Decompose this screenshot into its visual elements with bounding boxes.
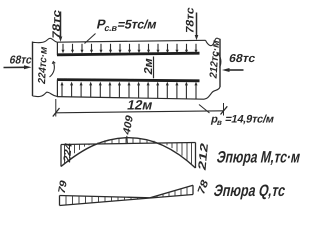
svg-text:рв =14,9тс/м: рв =14,9тс/м <box>210 114 275 127</box>
M diagram curve (parabola) <box>61 138 196 168</box>
reaction force 78tc left: head <box>59 37 63 42</box>
Q diagram right edge (78 ordinate) <box>192 185 194 194</box>
dimension extension line left <box>55 99 57 117</box>
break squiggle top-right <box>206 38 221 45</box>
svg-text:78: 78 <box>196 177 211 197</box>
svg-text:409: 409 <box>121 113 136 136</box>
dimension tick left <box>53 108 60 117</box>
moment arc right <box>218 53 221 68</box>
svg-text:224: 224 <box>62 141 74 164</box>
force 68tc left arrow <box>4 66 26 68</box>
moment arc left <box>50 63 55 78</box>
svg-text:Эпюра М,тс·м: Эпюра М,тс·м <box>215 148 302 167</box>
dimension tick right <box>221 106 228 114</box>
reaction force 78tc right: shaft <box>196 13 198 37</box>
dimension line 12m <box>56 111 224 113</box>
svg-text:79: 79 <box>57 178 70 195</box>
distributed load arrows p_v (up) <box>61 82 198 99</box>
tick 2M between beams <box>153 57 155 79</box>
left support wall line <box>32 42 34 97</box>
svg-text:224тс·м: 224тс·м <box>36 45 50 85</box>
break squiggle top-left <box>33 38 58 42</box>
load line top of distributed load p_sv <box>57 40 205 42</box>
beam 1 left edge <box>56 42 58 55</box>
beam 2 left edge <box>56 80 58 97</box>
leader line for p_v <box>199 105 210 114</box>
break squiggle bottom-right <box>204 87 220 99</box>
M diagram right edge (212 ordinate) <box>195 143 197 169</box>
leader tick 409 <box>126 136 129 144</box>
reaction force 78tc left: shaft <box>60 12 62 38</box>
svg-text:Рс.в=5тс/м: Рс.в=5тс/м <box>95 17 158 33</box>
svg-text:2м: 2м <box>142 57 155 76</box>
svg-text:68тс: 68тс <box>8 54 33 67</box>
M diagram hatching <box>65 138 192 164</box>
svg-text:78тс: 78тс <box>185 6 197 35</box>
Q diagram baseline <box>60 195 194 206</box>
M diagram baseline <box>61 143 196 145</box>
Q diagram hatching <box>66 187 187 205</box>
Q diagram line <box>60 185 194 198</box>
force 68tc right arrow <box>228 69 244 71</box>
load line bottom of distributed load p_v <box>57 97 204 100</box>
distributed load arrows p_sv (down) <box>62 44 198 53</box>
dimension extension line right <box>223 103 225 116</box>
svg-text:212: 212 <box>197 141 211 171</box>
Q diagram left edge (79 ordinate) <box>59 196 61 206</box>
svg-text:12м: 12м <box>126 98 154 113</box>
reaction force 78tc right: head <box>195 35 199 40</box>
beam 1 (upper pontoon deck, thick) <box>57 53 200 55</box>
svg-text:Эпюра Q,тс: Эпюра Q,тс <box>212 181 287 200</box>
M diagram left edge (224 ordinate) <box>60 145 62 167</box>
leader line for P_sv <box>85 34 96 44</box>
svg-text:68тс: 68тс <box>228 52 257 65</box>
svg-text:78тс: 78тс <box>51 9 63 41</box>
right support wall line <box>219 39 221 87</box>
beam 2 (lower pontoon bottom, thick) <box>57 80 200 81</box>
break squiggle bottom-left <box>33 92 58 96</box>
